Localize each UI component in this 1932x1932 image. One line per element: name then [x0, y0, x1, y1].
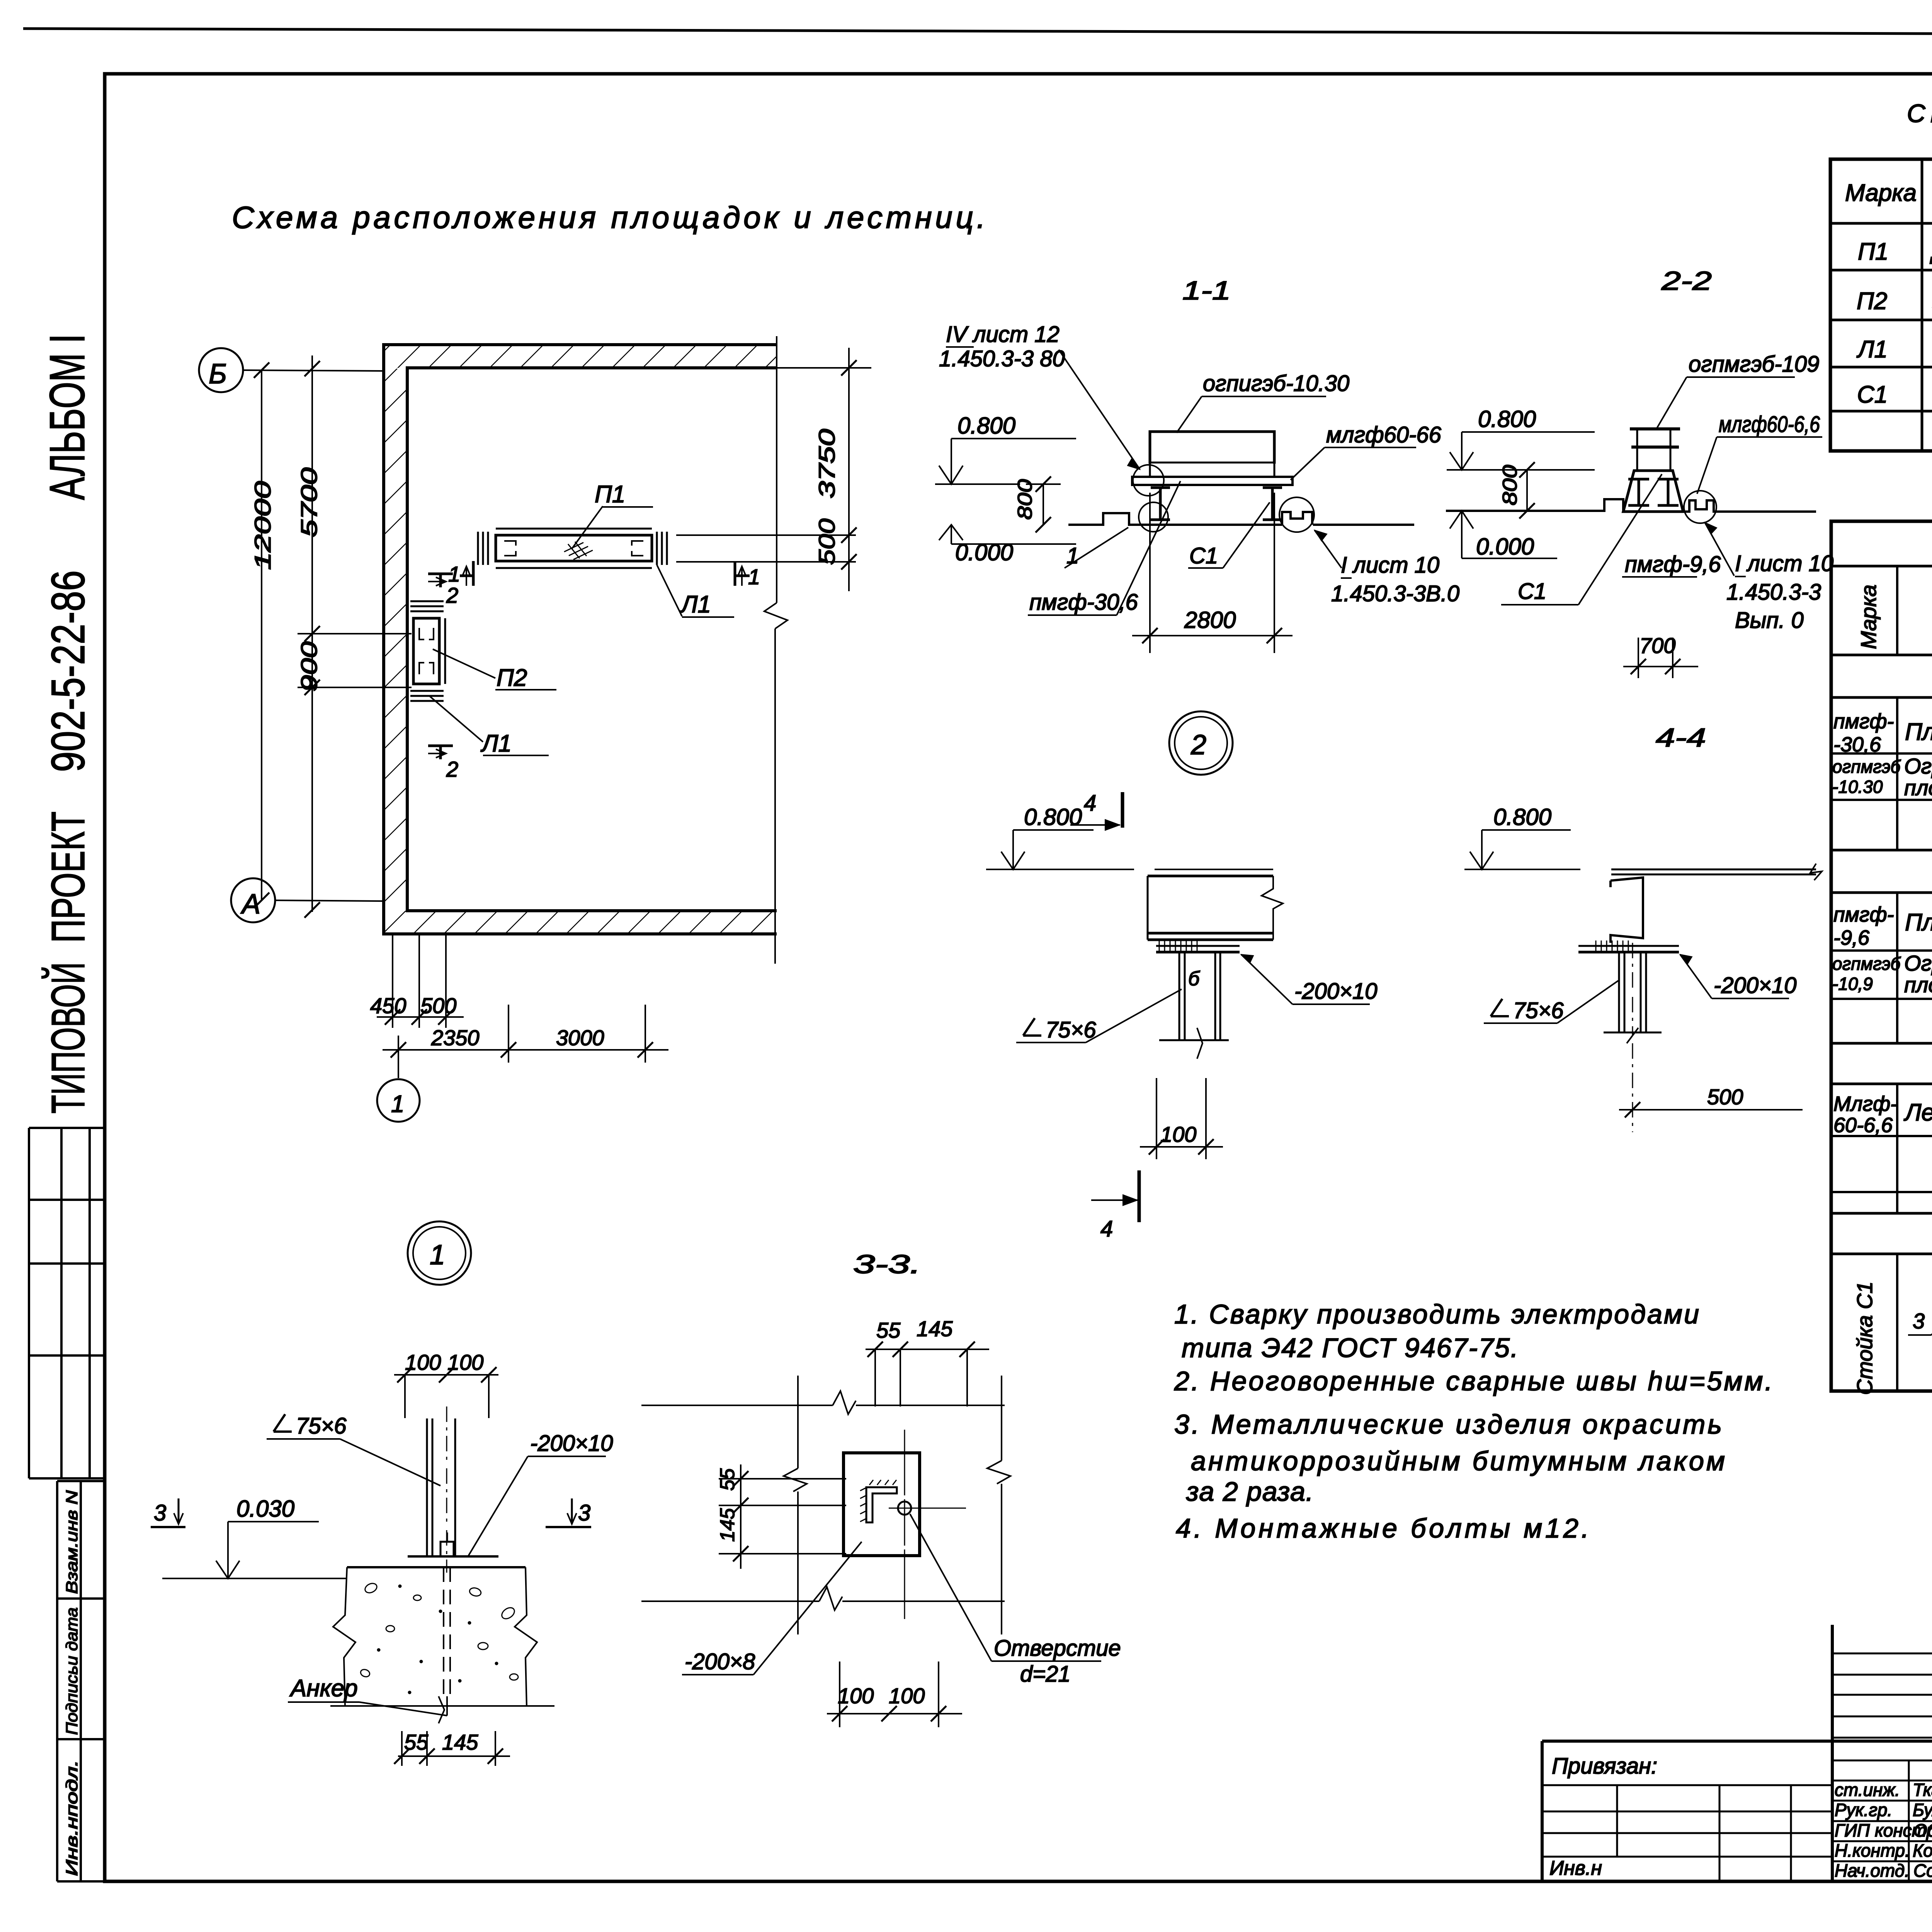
svg-text:900: 900: [297, 641, 322, 692]
svg-text:ПРОЕКТ: ПРОЕКТ: [42, 811, 94, 943]
sidebar upper stamp table: [29, 1128, 105, 1478]
signature strip: [1831, 1625, 1834, 1881]
end channels: [477, 532, 479, 565]
Привязан box rows: [1542, 1785, 1832, 1881]
svg-text:75×6: 75×6: [296, 1413, 347, 1439]
svg-text:млгф60-6,6: млгф60-6,6: [1719, 412, 1820, 437]
wall outline inner: [407, 368, 777, 911]
svg-text:огпигэб-10.30: огпигэб-10.30: [1203, 371, 1349, 396]
centerlines of bolt: [889, 1430, 966, 1619]
right support base channel: [1282, 512, 1312, 525]
svg-text:2. Неоговоренные сварные швы: 2. Неоговоренные сварные швы hш=5мм.: [1174, 1366, 1772, 1396]
svg-text:1-1: 1-1: [1182, 276, 1231, 305]
svg-text:75×6: 75×6: [1046, 1017, 1096, 1043]
svg-text:АЛЬБОМ I: АЛЬБОМ I: [40, 334, 95, 500]
svg-text:902-5-22-86: 902-5-22-86: [42, 570, 94, 772]
svg-text:0.800: 0.800: [1024, 804, 1082, 830]
svg-text:Л1: Л1: [480, 730, 512, 757]
svg-text:0.000: 0.000: [1476, 534, 1534, 560]
ground line: [1446, 499, 1623, 512]
stand column right: [1263, 488, 1282, 520]
title block outline: [1542, 1740, 1932, 1743]
label ∠75x6: [274, 1414, 292, 1432]
section marker 3 left: [178, 1498, 180, 1523]
detail circle left bottom: [1139, 502, 1168, 532]
svg-text:Марка: Марка: [1845, 180, 1917, 206]
svg-text:2800: 2800: [1184, 607, 1236, 633]
svg-text:100: 100: [1160, 1122, 1196, 1146]
svg-text:IV лист 12: IV лист 12: [946, 322, 1060, 347]
platform П2 plan symbol: [407, 601, 445, 701]
svg-text:100: 100: [889, 1684, 925, 1708]
svg-text:антикоррозийным битумным лак: антикоррозийным битумным лаком: [1191, 1446, 1725, 1476]
ved header: [1897, 566, 1932, 655]
svg-text:-9,6: -9,6: [1833, 926, 1870, 949]
posts: [1618, 952, 1620, 1032]
svg-text:огпмгэб: огпмгэб: [1832, 757, 1901, 777]
svg-text:I лист 10: I лист 10: [1341, 553, 1439, 578]
railing block: [1150, 432, 1274, 464]
connection plate: [1156, 945, 1240, 947]
svg-text:800: 800: [1499, 465, 1521, 505]
svg-text:Привязан:: Привязан:: [1552, 1753, 1657, 1779]
verticals for П1 rows: [1897, 697, 1932, 850]
svg-text:Рук.гр.: Рук.гр.: [1835, 1800, 1892, 1820]
svg-text:0.030: 0.030: [236, 1496, 294, 1522]
svg-text:за 2 раза.: за 2 раза.: [1186, 1476, 1313, 1507]
grid circle 1 bottom: [377, 1079, 420, 1122]
dim 800 vertical: [1043, 484, 1044, 525]
svg-text:0.800: 0.800: [957, 413, 1015, 439]
label ∠75x6: [1023, 1018, 1041, 1036]
bottom dims 450 500: [392, 935, 393, 1028]
svg-text:ст.инж.: ст.инж.: [1835, 1780, 1900, 1800]
plate square: [844, 1453, 920, 1556]
svg-text:3-3.: 3-3.: [853, 1250, 921, 1279]
svg-text:Стойка С1: Стойка С1: [1852, 1282, 1877, 1395]
svg-text:d=21: d=21: [1020, 1662, 1071, 1687]
ved table outer: [1831, 521, 1932, 1391]
svg-text:I лист 10: I лист 10: [1735, 551, 1833, 576]
svg-text:б: б: [1188, 968, 1200, 990]
svg-text:Л1: Л1: [680, 591, 711, 618]
svg-text:Булатова: Булатова: [1913, 1800, 1932, 1820]
svg-text:800: 800: [1014, 479, 1036, 520]
svg-text:100: 100: [838, 1684, 874, 1708]
svg-text:площадки: площадки: [1904, 973, 1932, 997]
svg-text:75×6: 75×6: [1513, 998, 1564, 1023]
dim 700: [1638, 638, 1639, 678]
I-beam right inside: [1658, 479, 1679, 505]
section flag 2 bottom: [428, 746, 453, 759]
svg-text:-200×10: -200×10: [1714, 973, 1796, 998]
centerline: [446, 1406, 447, 1573]
svg-text:С1: С1: [1518, 579, 1546, 604]
detail circle right bottom: [1279, 497, 1314, 532]
floor planks: [1611, 869, 1816, 871]
weld ticks: [1159, 940, 1197, 951]
platform floor beam: [1132, 477, 1293, 485]
detail circle right base: [1684, 491, 1716, 523]
svg-text:1. Сварку производить электр: 1. Сварку производить электродами: [1174, 1299, 1699, 1329]
svg-text:100: 100: [405, 1350, 441, 1374]
svg-text:Ткачук: Ткачук: [1913, 1780, 1932, 1800]
base cut: [1159, 1039, 1229, 1041]
svg-text:100: 100: [447, 1350, 483, 1374]
svg-text:пмгф-9,6: пмгф-9,6: [1625, 552, 1721, 577]
svg-text:500: 500: [420, 993, 456, 1018]
stand column left: [1151, 488, 1170, 520]
svg-text:П2: П2: [497, 665, 527, 691]
svg-text:Подписьи дата: Подписьи дата: [63, 1607, 81, 1735]
svg-text:Инв.нподл.: Инв.нподл.: [63, 1760, 81, 1876]
bottom dims 2350 3000: [398, 1036, 399, 1078]
svg-text:1.450.3-3В.0: 1.450.3-3В.0: [1331, 581, 1459, 606]
svg-text:Ограждение: Ограждение: [1904, 951, 1932, 975]
svg-text:700: 700: [1639, 633, 1675, 658]
svg-text:ТИПОВОЙ: ТИПОВОЙ: [41, 962, 94, 1114]
svg-text:пмгф-: пмгф-: [1833, 903, 1894, 926]
svg-text:3: 3: [154, 1500, 166, 1526]
svg-text:Взам.инв N: Взам.инв N: [63, 1490, 81, 1594]
svg-text:55: 55: [876, 1318, 901, 1342]
column: [426, 1418, 428, 1556]
svg-text:3750: 3750: [815, 429, 840, 498]
svg-text:-10.30: -10.30: [1832, 777, 1883, 797]
verticals for Л1 rows: [1897, 1084, 1932, 1213]
svg-text:4: 4: [1084, 791, 1096, 816]
svg-text:1: 1: [748, 565, 760, 589]
svg-text:12000: 12000: [250, 481, 276, 570]
svg-text:-200×8: -200×8: [685, 1649, 755, 1674]
I-beam left inside: [1628, 479, 1649, 505]
svg-text:огпмгэб-109: огпмгэб-109: [1689, 352, 1819, 377]
bolt circle: [898, 1502, 911, 1515]
svg-text:Л1: Л1: [1856, 336, 1888, 363]
svg-text:4: 4: [1100, 1216, 1113, 1242]
label ∠75x6: [1491, 999, 1509, 1016]
concrete block: [347, 1566, 526, 1568]
channel section: [1611, 878, 1643, 943]
dim line 12000 vertical: [261, 370, 262, 900]
svg-text:1: 1: [430, 1240, 445, 1270]
svg-text:С1: С1: [1189, 543, 1218, 568]
stand trapezoid: [1623, 471, 1683, 512]
svg-text:2350: 2350: [431, 1026, 480, 1050]
page top rule: [23, 29, 1932, 36]
svg-text:3: 3: [1913, 1309, 1925, 1333]
verticals for C1 rows: [1897, 1254, 1932, 1391]
svg-text:500: 500: [1707, 1085, 1743, 1109]
grid circle Б: [199, 348, 243, 392]
svg-text:-200×10: -200×10: [1294, 979, 1377, 1004]
svg-text:П1: П1: [1858, 238, 1888, 265]
dim 800 vertical: [1526, 470, 1528, 511]
svg-text:-200×10: -200×10: [530, 1431, 613, 1456]
svg-text:500: 500: [815, 519, 840, 565]
wall bottom band hatched: [384, 911, 777, 934]
railing posts above: [1636, 429, 1638, 471]
base plate + bolt: [408, 1555, 498, 1558]
svg-text:3: 3: [578, 1500, 590, 1526]
platform edge block: [1155, 869, 1273, 870]
svg-text:Сорокин: Сорокин: [1913, 1861, 1932, 1881]
spec table grid: [1830, 159, 1932, 451]
section flag 2 top: [428, 574, 453, 587]
wall left band hatched: [384, 369, 407, 910]
svg-text:Инв.н: Инв.н: [1549, 1857, 1602, 1879]
svg-text:Млгф-: Млгф-: [1833, 1092, 1897, 1116]
anchor dashed: [444, 1567, 450, 1700]
svg-text:1.450.3-3 80: 1.450.3-3 80: [939, 346, 1065, 371]
svg-text:2-2: 2-2: [1661, 266, 1712, 296]
sidebar lower attribute table: [57, 1481, 105, 1881]
grid line Б: [243, 370, 384, 371]
posts: [1179, 952, 1180, 1040]
svg-text:450: 450: [370, 993, 406, 1018]
wall outline outer: [384, 345, 777, 934]
svg-text:1: 1: [1066, 543, 1079, 568]
ground line: [1068, 513, 1282, 525]
svg-text:площадки: площадки: [1904, 776, 1932, 800]
svg-text:Марка: Марка: [1856, 585, 1881, 649]
dim 2800: [1149, 493, 1151, 653]
svg-text:Обух: Обух: [1913, 1820, 1932, 1840]
svg-text:Б: Б: [209, 359, 227, 389]
dim line 3750/500 vertical right: [848, 348, 850, 591]
connection plate: [1578, 945, 1679, 947]
base line: [1604, 1032, 1662, 1034]
svg-text:145: 145: [716, 1508, 739, 1542]
svg-text:Нач.отд.: Нач.отд.: [1835, 1861, 1910, 1881]
wall break line right: [764, 336, 787, 964]
svg-text:Ковалинина: Ковалинина: [1913, 1840, 1932, 1861]
svg-text:60-6,6: 60-6,6: [1833, 1114, 1893, 1137]
svg-text:Площадка: Площадка: [1905, 909, 1932, 936]
detail circle left top: [1133, 465, 1164, 496]
section marker 4 bottom: [1138, 1170, 1141, 1222]
surrounding beam lines with breaks: [641, 1405, 833, 1406]
platform П1 plan symbol: [478, 529, 667, 568]
section marker 3 right: [571, 1498, 573, 1523]
svg-text:1.450.3-3: 1.450.3-3: [1726, 580, 1821, 605]
svg-text:4-4: 4-4: [1656, 723, 1706, 752]
svg-text:пмгф-30,6: пмгф-30,6: [1029, 590, 1138, 615]
svg-text:огпмгэб: огпмгэб: [1832, 954, 1901, 974]
svg-text:пмгф-: пмгф-: [1833, 710, 1894, 733]
dim line 5700/900 vertical: [311, 355, 313, 912]
svg-text:Н.контр.: Н.контр.: [1835, 1840, 1910, 1861]
svg-text:Анкер: Анкер: [289, 1675, 358, 1702]
svg-text:П2: П2: [1857, 288, 1887, 315]
cross hatch mark: [564, 542, 593, 560]
angle with hatch: [866, 1487, 897, 1522]
svg-text:Лестница: Лестница: [1903, 1099, 1932, 1126]
svg-text:5700: 5700: [297, 468, 322, 537]
svg-text:0.800: 0.800: [1478, 406, 1536, 432]
svg-text:2: 2: [446, 757, 458, 781]
centerline: [1632, 943, 1633, 1132]
svg-text:-10,9: -10,9: [1832, 974, 1873, 994]
svg-text:С1: С1: [1857, 381, 1888, 408]
svg-text:2: 2: [1190, 730, 1206, 760]
svg-text:145: 145: [917, 1316, 953, 1341]
svg-text:Ограждение: Ограждение: [1904, 754, 1932, 778]
svg-text:Отверстие: Отверстие: [994, 1636, 1121, 1661]
svg-text:П1: П1: [595, 481, 625, 508]
svg-text:0.800: 0.800: [1493, 804, 1551, 830]
svg-text:1: 1: [391, 1091, 404, 1117]
dim 100: [1156, 1078, 1157, 1159]
svg-text:2: 2: [446, 583, 458, 607]
grid line А: [275, 900, 384, 901]
wall top band hatched: [384, 345, 777, 368]
svg-text:3000: 3000: [556, 1026, 604, 1050]
concrete dots: [360, 1582, 518, 1694]
svg-text:3. Металлические изделия окр: 3. Металлические изделия окрасить: [1174, 1409, 1722, 1439]
section flag 1 right: [735, 561, 750, 586]
grid circle А: [231, 878, 275, 922]
verticals for П2 rows: [1897, 893, 1932, 1043]
svg-text:Площадка: Площадка: [1905, 719, 1932, 745]
svg-text:145: 145: [442, 1730, 478, 1754]
svg-text:млгф60-66: млгф60-66: [1326, 422, 1442, 447]
svg-text:Вып. 0: Вып. 0: [1735, 608, 1804, 633]
section flag 1 left: [460, 561, 473, 586]
